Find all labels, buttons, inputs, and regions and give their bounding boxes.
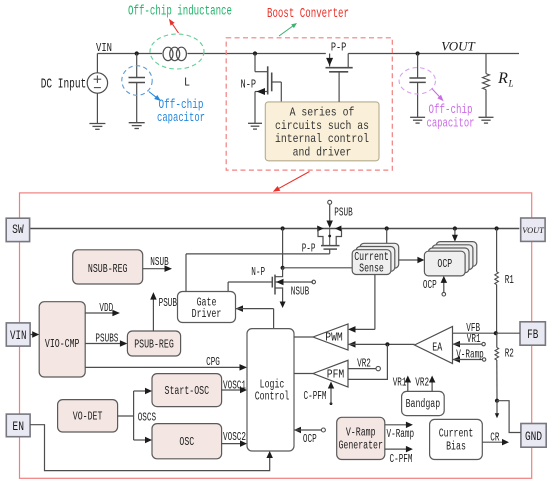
svg-text:R: R bbox=[497, 70, 508, 87]
svg-text:VDD: VDD bbox=[99, 302, 113, 315]
svg-text:VIN: VIN bbox=[96, 41, 112, 55]
svg-text:P-P: P-P bbox=[331, 41, 347, 54]
svg-text:PSUB: PSUB bbox=[334, 207, 352, 220]
svg-text:NSUB: NSUB bbox=[150, 256, 168, 269]
svg-text:and driver: and driver bbox=[293, 146, 352, 160]
svg-text:EA: EA bbox=[432, 341, 443, 355]
svg-text:V-Ramp: V-Ramp bbox=[346, 427, 376, 440]
svg-text:OSCS: OSCS bbox=[138, 412, 156, 425]
svg-text:VOUT: VOUT bbox=[441, 39, 475, 54]
svg-text:CPG: CPG bbox=[206, 356, 220, 369]
svg-text:OSC: OSC bbox=[179, 436, 194, 449]
svg-text:Start-OSC: Start-OSC bbox=[165, 385, 210, 398]
svg-text:L: L bbox=[507, 79, 513, 89]
svg-text:N-P: N-P bbox=[241, 78, 257, 91]
svg-text:Current: Current bbox=[439, 427, 474, 440]
svg-text:GND: GND bbox=[525, 429, 542, 444]
svg-text:PFM: PFM bbox=[327, 367, 345, 381]
svg-text:V-Ramp: V-Ramp bbox=[456, 349, 484, 362]
svg-text:PSUBS: PSUBS bbox=[95, 332, 118, 345]
svg-text:PWM: PWM bbox=[325, 331, 343, 345]
svg-text:N-P: N-P bbox=[251, 266, 265, 279]
svg-text:Bias: Bias bbox=[446, 440, 466, 453]
svg-text:EN: EN bbox=[12, 419, 24, 434]
svg-text:OCP: OCP bbox=[437, 258, 452, 271]
svg-text:Driver: Driver bbox=[192, 308, 222, 321]
svg-text:OCP: OCP bbox=[303, 433, 317, 446]
svg-text:CR: CR bbox=[490, 432, 499, 445]
svg-text:circuits such as: circuits such as bbox=[275, 119, 369, 133]
svg-text:Control: Control bbox=[255, 390, 290, 403]
svg-text:capacitor: capacitor bbox=[427, 115, 475, 130]
svg-text:VOUT: VOUT bbox=[522, 225, 545, 235]
svg-text:A series of: A series of bbox=[290, 106, 355, 120]
svg-text:VIO-CMP: VIO-CMP bbox=[45, 338, 80, 351]
svg-text:SW: SW bbox=[12, 222, 24, 237]
svg-text:R1: R1 bbox=[505, 274, 514, 287]
svg-text:V-Ramp: V-Ramp bbox=[387, 428, 415, 441]
svg-text:VOSC2: VOSC2 bbox=[223, 431, 246, 444]
svg-text:VR1: VR1 bbox=[393, 377, 407, 390]
svg-text:Bandgap: Bandgap bbox=[406, 398, 441, 411]
svg-text:DC Input: DC Input bbox=[41, 78, 87, 93]
svg-text:PSUB-REG: PSUB-REG bbox=[134, 338, 174, 351]
svg-text:NSUB-REG: NSUB-REG bbox=[88, 263, 128, 276]
svg-text:C-PFM: C-PFM bbox=[304, 390, 327, 403]
svg-text:Sense: Sense bbox=[359, 262, 384, 275]
svg-text:OCP: OCP bbox=[423, 279, 437, 292]
svg-text:VIN: VIN bbox=[10, 328, 27, 343]
svg-text:VR2: VR2 bbox=[357, 358, 371, 371]
svg-text:R2: R2 bbox=[505, 348, 514, 361]
svg-text:C-PFM: C-PFM bbox=[390, 453, 413, 466]
svg-text:VR1: VR1 bbox=[467, 333, 481, 346]
svg-text:internal control: internal control bbox=[275, 132, 369, 146]
svg-text:VOSC1: VOSC1 bbox=[223, 380, 246, 393]
svg-text:FB: FB bbox=[527, 327, 538, 342]
svg-text:Generater: Generater bbox=[338, 440, 383, 453]
svg-text:NSUB: NSUB bbox=[291, 286, 309, 299]
svg-text:Off-chip inductance: Off-chip inductance bbox=[128, 5, 232, 20]
svg-text:VO-DET: VO-DET bbox=[73, 411, 103, 424]
svg-text:PSUB: PSUB bbox=[159, 297, 177, 310]
svg-text:L: L bbox=[184, 76, 190, 90]
svg-text:capacitor: capacitor bbox=[157, 110, 205, 125]
svg-text:Boost Converter: Boost Converter bbox=[267, 7, 349, 22]
svg-text:VR2: VR2 bbox=[415, 377, 429, 390]
